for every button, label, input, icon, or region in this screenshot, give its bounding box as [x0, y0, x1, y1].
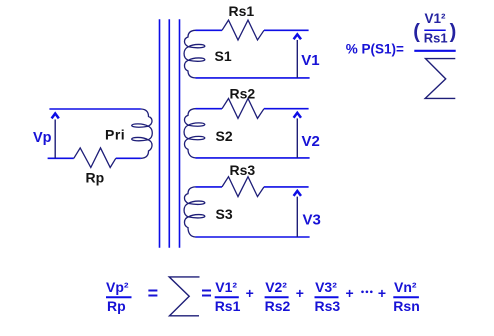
svg-text:Vp: Vp	[33, 130, 52, 146]
svg-text:+: +	[246, 285, 254, 301]
transformer core	[160, 19, 180, 247]
svg-text:V1²: V1²	[215, 279, 237, 295]
svg-text:Rs1: Rs1	[215, 298, 241, 314]
svg-text:S1: S1	[215, 48, 232, 64]
svg-text:): )	[450, 21, 457, 43]
wire S1 top right	[264, 29, 309, 31]
wire S2 top left	[196, 108, 223, 110]
svg-text:Rs3: Rs3	[230, 162, 256, 178]
arrow Vp head	[52, 114, 59, 119]
wire S2 top right	[264, 108, 309, 110]
wire S3 top right	[264, 186, 309, 188]
resistor Rs3	[222, 177, 264, 197]
arrow V1 head	[294, 34, 301, 39]
svg-text:Rs2: Rs2	[230, 86, 256, 102]
wire S1 bottom	[196, 77, 310, 79]
resistor Rp	[74, 148, 116, 168]
svg-text:Rs1: Rs1	[229, 3, 255, 19]
svg-text:+: +	[378, 285, 386, 301]
resistor Rs1	[222, 20, 264, 40]
svg-text:+: +	[296, 285, 304, 301]
arrow V3 line	[296, 197, 298, 237]
svg-text:Rp: Rp	[107, 298, 126, 314]
dots	[361, 291, 364, 294]
svg-text:Rsn: Rsn	[393, 298, 419, 314]
svg-text:+: +	[346, 285, 354, 301]
sigma top	[425, 59, 455, 99]
main fraction bar	[414, 50, 455, 52]
svg-text:V1²: V1²	[425, 11, 447, 26]
small fraction bar	[424, 29, 445, 31]
arrow V1 line	[296, 40, 298, 78]
sigma bottom	[169, 277, 199, 316]
arrow V2 head	[294, 113, 301, 118]
wire S1 top left	[196, 29, 223, 31]
winding S3	[184, 187, 205, 237]
wire primary top	[49, 108, 140, 110]
svg-text:V2²: V2²	[265, 279, 287, 295]
resistor Rs2	[222, 99, 264, 119]
svg-text:=: =	[201, 284, 212, 304]
arrow V3 head	[294, 191, 301, 196]
svg-text:V2: V2	[302, 133, 320, 150]
svg-text:Rs1: Rs1	[424, 31, 448, 46]
svg-text:=: =	[148, 284, 159, 304]
svg-text:Pri: Pri	[105, 127, 125, 143]
wire primary bottom right	[116, 157, 141, 159]
svg-text:Rp: Rp	[86, 170, 105, 186]
wire S3 bottom	[196, 236, 310, 238]
arrow V2 line	[296, 118, 298, 157]
svg-text:Rs2: Rs2	[265, 298, 291, 314]
svg-text:S3: S3	[216, 206, 233, 222]
svg-text:% P(S1)=: % P(S1)=	[346, 42, 404, 57]
svg-text:Vn²: Vn²	[394, 279, 417, 295]
svg-text:V3: V3	[303, 212, 321, 229]
arrow Vp line	[54, 120, 56, 159]
svg-text:(: (	[413, 21, 420, 43]
svg-text:Vp²: Vp²	[106, 279, 129, 295]
svg-text:Rs3: Rs3	[315, 298, 341, 314]
winding Pri	[132, 109, 153, 158]
winding S2	[184, 109, 205, 158]
wire primary bottom left	[48, 157, 74, 159]
wire S2 bottom	[196, 157, 310, 159]
svg-text:V1: V1	[301, 52, 319, 69]
winding S1	[184, 30, 205, 78]
wire S3 top left	[196, 186, 223, 188]
svg-text:V3²: V3²	[315, 279, 337, 295]
svg-text:S2: S2	[216, 128, 233, 144]
